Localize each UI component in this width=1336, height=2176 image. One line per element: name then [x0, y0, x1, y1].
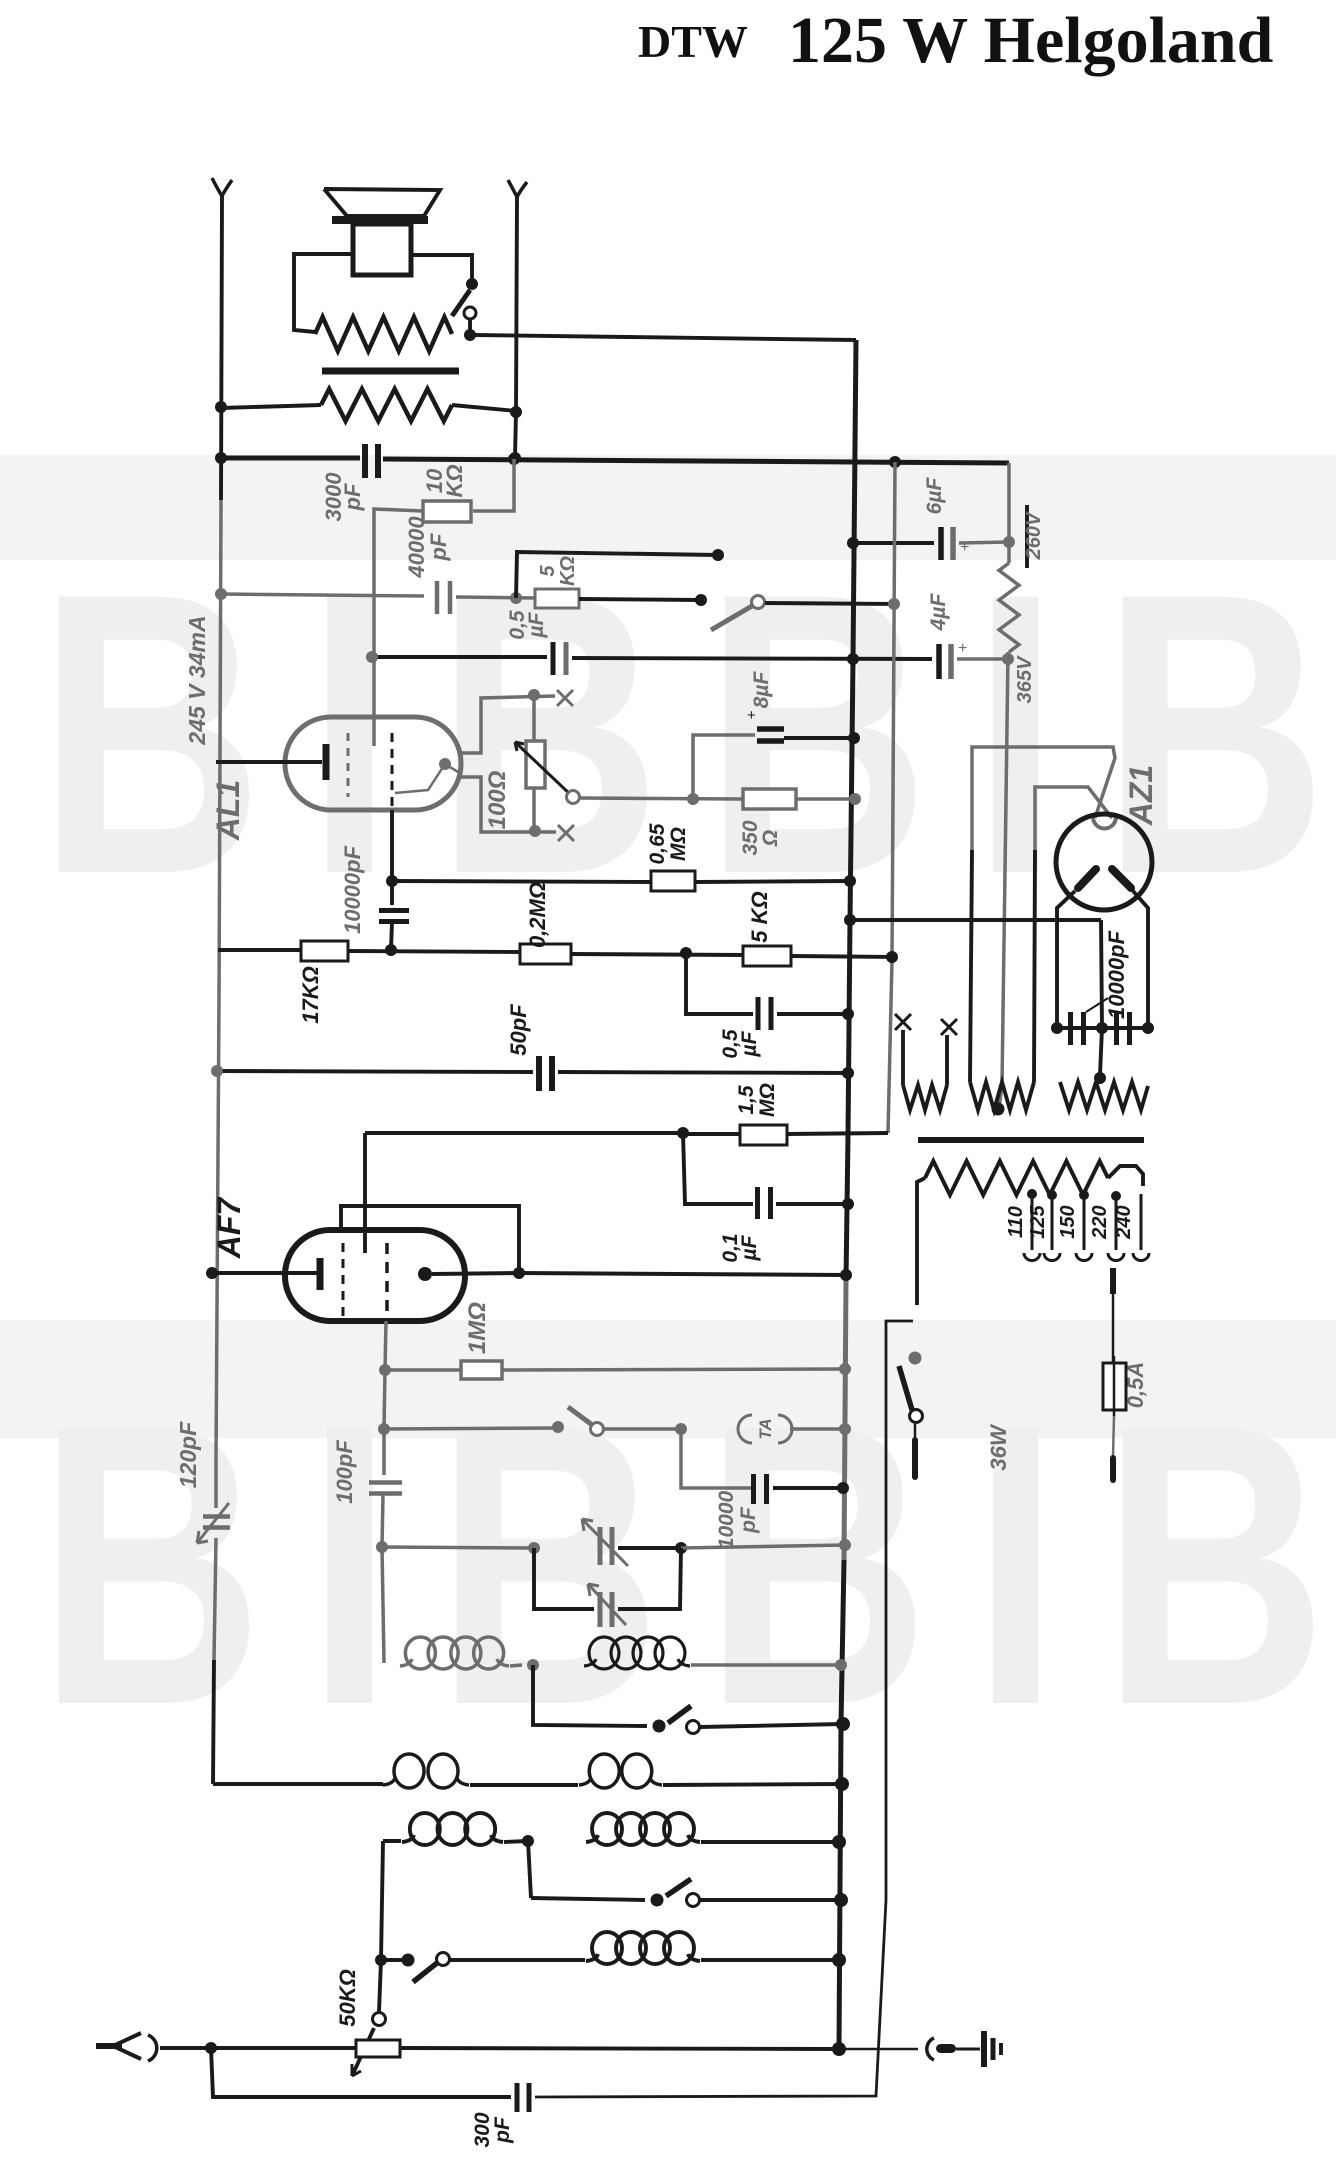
wire V4 — [888, 462, 895, 1133]
wire H32 a — [531, 1898, 645, 1900]
wire H26 c — [681, 1539, 851, 1551]
label 36W — [986, 1423, 1011, 1470]
svg-text:MΩ: MΩ — [756, 1083, 779, 1117]
capacitor 6uF — [941, 527, 969, 560]
winding W3 — [1060, 1082, 1148, 1110]
resistor 50K — [356, 2040, 400, 2057]
coil L3 — [383, 1754, 469, 1788]
wire V5 upper — [1007, 463, 1011, 563]
watermark — [0, 455, 1336, 1789]
x mark top — [557, 690, 573, 706]
mains taps — [1024, 1189, 1149, 1261]
wire V3 main rail — [839, 340, 856, 2049]
resistor 5K top — [535, 589, 579, 608]
capacitor 50pF — [539, 1056, 552, 1091]
coil L7 — [586, 1932, 700, 1964]
pot 50K wiper — [352, 2013, 386, 2077]
wire secondary right — [452, 405, 522, 418]
svg-text:pF: pF — [426, 533, 451, 561]
svg-text:KΩ: KΩ — [442, 464, 467, 497]
svg-text:120pF: 120pF — [175, 1421, 201, 1488]
winding W1 — [895, 1014, 957, 1110]
fuse 0,5A — [1103, 1356, 1126, 1416]
svg-text:pF: pF — [340, 483, 365, 511]
capacitor 4uF — [939, 640, 967, 679]
resistor 5K mid — [743, 946, 791, 966]
wire H31 b — [504, 1835, 534, 1847]
wire V x379 — [379, 1960, 381, 2012]
wire H20 left — [683, 1133, 753, 1204]
svg-text:125 W Helgoland: 125 W Helgoland — [788, 4, 1273, 77]
wire H5 left — [847, 537, 934, 549]
svg-text:DTW: DTW — [638, 16, 748, 67]
svg-text:+: + — [747, 707, 756, 724]
svg-text:+: + — [958, 640, 967, 657]
label 8uF — [750, 671, 773, 709]
ground symbol — [984, 2031, 1001, 2067]
label 0,5uF upper — [506, 610, 548, 640]
label 0,5A — [1123, 1362, 1148, 1408]
wire fuse lower — [1113, 1416, 1114, 1480]
wire TA line — [378, 1423, 556, 1435]
wire V6 lower — [970, 850, 972, 1082]
switch S1 speaker — [452, 278, 478, 341]
wire V10 — [1094, 920, 1106, 1084]
wire H11 — [972, 747, 1115, 850]
tube AF7 cathode — [206, 1258, 320, 1290]
label 0,1uF — [719, 1233, 761, 1262]
wire H17 left — [686, 953, 753, 1014]
label 260V — [1023, 505, 1045, 568]
wire H28 a — [382, 1547, 384, 1663]
wire V2 right vertical — [515, 197, 517, 458]
wire H16 c — [571, 947, 743, 959]
label 6uF — [923, 477, 946, 515]
svg-text:4µF: 4µF — [927, 593, 950, 632]
label 245V34mA — [184, 615, 210, 745]
wire V5 lower — [999, 652, 1008, 1108]
wire speaker left lead — [294, 254, 353, 332]
wire H7 end — [957, 653, 1014, 665]
pot 100 Ohm wiper — [515, 742, 580, 804]
tube AL1 anode — [395, 758, 458, 793]
wire H2 main top line left — [215, 452, 360, 464]
coil L6 — [586, 1813, 700, 1845]
svg-text:pF: pF — [737, 1506, 760, 1534]
capacitor 0,5uF lower — [758, 997, 771, 1030]
tube AF7 anode — [418, 1267, 519, 1281]
coil L4 — [579, 1754, 662, 1788]
label 1M — [464, 1302, 491, 1354]
label 0,2M — [525, 882, 550, 948]
svg-text:µF: µF — [525, 611, 548, 638]
wire H1 switch to rail — [474, 335, 856, 340]
tube AZ1 anodes — [1078, 869, 1131, 888]
label 5K mid — [747, 891, 772, 942]
svg-text:17KΩ: 17KΩ — [298, 966, 323, 1024]
capacitor 10000pF grid — [379, 911, 409, 922]
label 50K — [335, 1969, 360, 2027]
wire H30 b — [470, 1783, 578, 1787]
resistor 260V bleeder — [999, 563, 1019, 652]
switch S3 phono — [552, 1407, 678, 1436]
svg-text:10000: 10000 — [715, 1490, 738, 1549]
title text — [638, 4, 1273, 77]
wire V x384 a — [384, 1370, 385, 1429]
pot 100 Ohm body — [526, 700, 545, 828]
wire AF7 anode line — [513, 1267, 852, 1281]
wire H28 c — [691, 1659, 847, 1671]
wire V x384 c — [382, 1495, 383, 1547]
wire mains left — [917, 1178, 925, 1305]
mains primary winding — [925, 1161, 1108, 1195]
wire H33 a — [375, 1954, 415, 1967]
svg-text:10000pF: 10000pF — [1104, 930, 1129, 1019]
wire H14 right — [695, 875, 856, 887]
capacitor 120pF trimmer — [197, 1503, 230, 1543]
wire 8uF left — [693, 735, 755, 799]
mains transformer core — [918, 1137, 1144, 1143]
svg-text:5 KΩ: 5 KΩ — [747, 891, 772, 942]
output transformer primary winding — [315, 317, 452, 351]
wire H18 right — [558, 1067, 854, 1079]
wire H35 b — [535, 1321, 913, 2097]
capacitor 40000pF — [437, 581, 450, 614]
tap labels — [1005, 1204, 1135, 1239]
wire H6 right — [579, 594, 707, 606]
tube AF7 envelope — [285, 1230, 465, 1321]
svg-text:MΩ: MΩ — [667, 827, 690, 861]
wire H15 — [844, 914, 1101, 926]
wire AF7 grid lead — [363, 1133, 367, 1253]
label 17K — [298, 966, 323, 1024]
label 100pF — [332, 1440, 357, 1504]
wire H35 a — [211, 2048, 511, 2097]
x mark bottom — [558, 825, 574, 841]
label AF7 — [211, 1196, 247, 1260]
wire H30 c — [663, 1777, 849, 1791]
wire V7 lower — [1034, 850, 1035, 1082]
output transformer core — [322, 368, 459, 375]
wire H31 a — [383, 1839, 401, 1843]
svg-text:8µF: 8µF — [750, 671, 773, 709]
mains primary right end — [1108, 1166, 1143, 1186]
wire 1M right — [502, 1363, 851, 1375]
coil L2 — [584, 1637, 690, 1669]
output transformer secondary winding — [321, 389, 452, 421]
wire varcap loop — [534, 1548, 681, 1609]
wire H7 right — [572, 653, 932, 665]
coil L5 — [402, 1813, 503, 1845]
label 40000pF — [404, 516, 451, 579]
svg-text:0,65: 0,65 — [646, 823, 669, 864]
capacitor 0,1uF — [758, 1187, 771, 1219]
label 50pF — [506, 1004, 531, 1056]
wire H26 b — [618, 1542, 687, 1554]
terminal fork left — [212, 178, 232, 196]
wire H16 d — [791, 951, 898, 963]
wire H7 left — [366, 651, 547, 663]
wire H31 c — [701, 1835, 846, 1849]
switch S4 wave a — [653, 1706, 851, 1734]
svg-text:10000pF: 10000pF — [340, 845, 365, 934]
svg-text:6µF: 6µF — [923, 477, 946, 515]
wire H20 right — [776, 1198, 854, 1210]
svg-text:µF: µF — [738, 1234, 761, 1261]
wire grid cap lower — [391, 922, 392, 950]
svg-text:125: 125 — [1027, 1204, 1049, 1238]
label 10K — [422, 464, 467, 497]
loudspeaker body — [353, 224, 411, 275]
svg-text:365V: 365V — [1014, 655, 1036, 703]
wire TA right — [675, 1423, 851, 1435]
wire H19 mid — [683, 1132, 740, 1136]
svg-text:AZ1: AZ1 — [1123, 765, 1159, 826]
wire caps pair — [1051, 1022, 1154, 1034]
switch S7 mains — [899, 1352, 923, 1478]
wire H14 left — [392, 881, 651, 882]
svg-text:260V: 260V — [1023, 511, 1045, 560]
varcap 2 — [588, 1584, 626, 1627]
wire H12 — [1035, 787, 1112, 850]
wire 1M left — [379, 1364, 461, 1376]
svg-text:245 V 34mA: 245 V 34mA — [184, 615, 210, 745]
wire stub y555 — [516, 549, 724, 598]
svg-text:pF: pF — [491, 2116, 514, 2144]
label 0,5uF lower — [719, 1029, 761, 1059]
resistor 0,2M — [520, 944, 571, 964]
resistor 350 Ohm — [743, 789, 796, 809]
capacitor 3000pF — [365, 444, 378, 478]
winding W2 — [970, 1082, 1034, 1116]
tube AF7 grids — [343, 1243, 387, 1321]
svg-text:36W: 36W — [986, 1423, 1011, 1470]
tube AL1 grids — [348, 600, 392, 806]
wire to earth — [839, 2048, 918, 2051]
wire H6 mid — [456, 592, 535, 604]
wire V x383 — [381, 1841, 383, 1960]
wire fuse upper — [1110, 1268, 1116, 1363]
wire secondary left — [215, 401, 321, 413]
svg-text:TA: TA — [756, 1418, 775, 1439]
wire H30 — [213, 1782, 383, 1786]
wire H5 right — [959, 536, 1015, 548]
varcap 1 — [582, 1519, 628, 1566]
wire 10K loop left — [374, 509, 423, 600]
earth connector — [927, 2038, 980, 2060]
svg-text:220: 220 — [1089, 1205, 1111, 1239]
label 10000pF lower — [715, 1490, 760, 1549]
svg-text:100Ω: 100Ω — [484, 770, 511, 829]
tube AL1 envelope — [285, 717, 461, 810]
wire pot100 top — [461, 689, 555, 753]
capacitor 10000pF a — [1071, 1012, 1084, 1045]
wire H29 — [533, 1665, 647, 1726]
resistor 17K — [301, 941, 348, 961]
wire H26 a — [376, 1541, 540, 1554]
capacitor 300pF — [517, 2083, 529, 2112]
antenna symbol — [96, 2033, 157, 2061]
tube AF7 screen loop — [341, 1206, 519, 1268]
wire pot100 bottom — [461, 777, 556, 837]
wire H16 b — [348, 944, 520, 956]
capacitor 10000pF b — [1117, 1012, 1130, 1045]
wire H16 a — [218, 948, 301, 952]
svg-text:1,5: 1,5 — [735, 1085, 758, 1115]
switch S5 — [651, 1879, 849, 1907]
svg-text:110: 110 — [1005, 1206, 1027, 1238]
wire H28 b — [510, 1659, 539, 1671]
svg-text:0,2MΩ: 0,2MΩ — [525, 882, 550, 948]
label 300pF — [471, 2112, 514, 2147]
label 100 Ohm — [484, 770, 511, 829]
terminal fork right — [508, 180, 527, 197]
wire H6 left — [215, 588, 424, 600]
label 3000pF — [321, 472, 365, 522]
svg-text:50pF: 50pF — [506, 1004, 531, 1056]
wire V1 left vertical rail — [213, 196, 222, 1784]
capacitor 100pF — [369, 1483, 402, 1494]
wire V x384 b — [382, 1429, 386, 1475]
svg-text:0,5A: 0,5A — [1123, 1362, 1148, 1408]
tube AZ1 right lead — [1133, 891, 1148, 1028]
switch S2 tone — [711, 596, 900, 631]
wire H2 main top line right — [383, 452, 1009, 468]
svg-text:150: 150 — [1057, 1205, 1079, 1238]
wire speaker right lead — [411, 255, 472, 282]
label 10000pF pair — [1086, 930, 1129, 1019]
svg-text:AF7: AF7 — [211, 1196, 247, 1260]
svg-text:AL1: AL1 — [210, 780, 246, 841]
svg-text:µF: µF — [738, 1030, 761, 1057]
svg-text:KΩ: KΩ — [557, 556, 579, 586]
tube AZ1 top cap — [1093, 817, 1116, 829]
wire H19 left — [365, 1127, 689, 1139]
svg-text:5: 5 — [537, 565, 559, 577]
pickup TA symbol — [738, 1415, 792, 1443]
label AL1 — [210, 780, 246, 841]
wire 10000pF loop right — [773, 1482, 849, 1494]
svg-text:240: 240 — [1113, 1205, 1135, 1239]
svg-text:50KΩ: 50KΩ — [335, 1969, 360, 2027]
label 0,65M — [646, 823, 690, 864]
svg-text:1MΩ: 1MΩ — [464, 1302, 491, 1354]
label 365V — [1014, 655, 1036, 703]
label 4uF — [927, 593, 950, 632]
label 1,5M — [735, 1083, 779, 1117]
resistor 0,65M — [651, 871, 695, 891]
tube AL1 cathode — [216, 744, 326, 780]
wire 10000pF loop left — [681, 1429, 751, 1488]
wire antenna line — [160, 2042, 356, 2054]
label 5K top — [537, 556, 579, 586]
label 120pF — [175, 1421, 201, 1488]
resistor 10K — [423, 501, 471, 522]
resistor 1M — [461, 1361, 502, 1379]
loudspeaker horn — [324, 189, 440, 220]
wire 10K loop right — [473, 459, 514, 511]
wire AF7 bottom lead — [385, 1321, 386, 1370]
capacitor 0,5uF upper — [553, 642, 566, 675]
switch S6 — [413, 1953, 585, 1983]
label AZ1 — [1123, 765, 1159, 826]
wire 350 left — [580, 793, 743, 805]
wire H17 right — [777, 1008, 854, 1020]
wire 350 right — [796, 793, 861, 805]
svg-text:100pF: 100pF — [332, 1440, 357, 1504]
wire AL1 grid lead — [386, 810, 398, 905]
tube AZ1 left lead — [1057, 891, 1075, 1028]
wire H19 right — [787, 1133, 888, 1134]
label 10000pF grid — [340, 845, 365, 934]
wire 8uF right — [784, 732, 860, 744]
label 350 Ohm — [739, 820, 782, 855]
svg-text:Ω: Ω — [759, 830, 782, 847]
tube AZ1 envelope — [1056, 814, 1152, 910]
wire H33 b — [701, 1953, 846, 1967]
capacitor 10000pF lower — [754, 1474, 767, 1504]
wire H18 left — [211, 1065, 533, 1077]
capacitor 8uF — [747, 707, 784, 741]
wire V x529 — [528, 1841, 531, 1898]
wire 50K right — [400, 2042, 846, 2056]
resistor 1,5M — [740, 1125, 787, 1145]
coil L1 — [400, 1637, 509, 1669]
